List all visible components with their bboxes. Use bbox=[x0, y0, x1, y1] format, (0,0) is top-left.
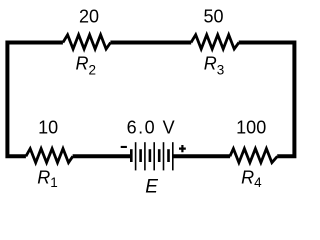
svg-text:E: E bbox=[145, 177, 158, 198]
svg-text:R3: R3 bbox=[204, 54, 225, 78]
svg-text:R2: R2 bbox=[76, 54, 97, 78]
resistor R3 zigzag bbox=[191, 35, 239, 49]
resistor R2 zigzag bbox=[63, 35, 111, 49]
wire top-right corner + right side + bottom-right stub bbox=[239, 43, 295, 157]
battery minus polarity sign bbox=[121, 146, 127, 148]
battery E cell plates bbox=[131, 142, 173, 170]
svg-text:20: 20 bbox=[79, 7, 99, 27]
wire bottom between R1 and battery bbox=[73, 154, 132, 158]
resistor R4 zigzag bbox=[230, 149, 278, 163]
svg-text:100: 100 bbox=[236, 118, 266, 138]
svg-text:10: 10 bbox=[38, 118, 58, 138]
wire top middle between R2 and R3 bbox=[110, 41, 191, 45]
wire bottom between battery and R4 bbox=[173, 154, 230, 158]
wire top-left corner + left side + bottom-left stub bbox=[7, 43, 63, 157]
battery plus polarity sign bbox=[179, 145, 186, 152]
svg-text:50: 50 bbox=[203, 7, 223, 27]
svg-text:R1: R1 bbox=[37, 167, 58, 190]
resistor R1 zigzag bbox=[26, 149, 73, 163]
svg-text:6.0 V: 6.0 V bbox=[127, 118, 177, 138]
svg-text:R4: R4 bbox=[241, 168, 262, 191]
